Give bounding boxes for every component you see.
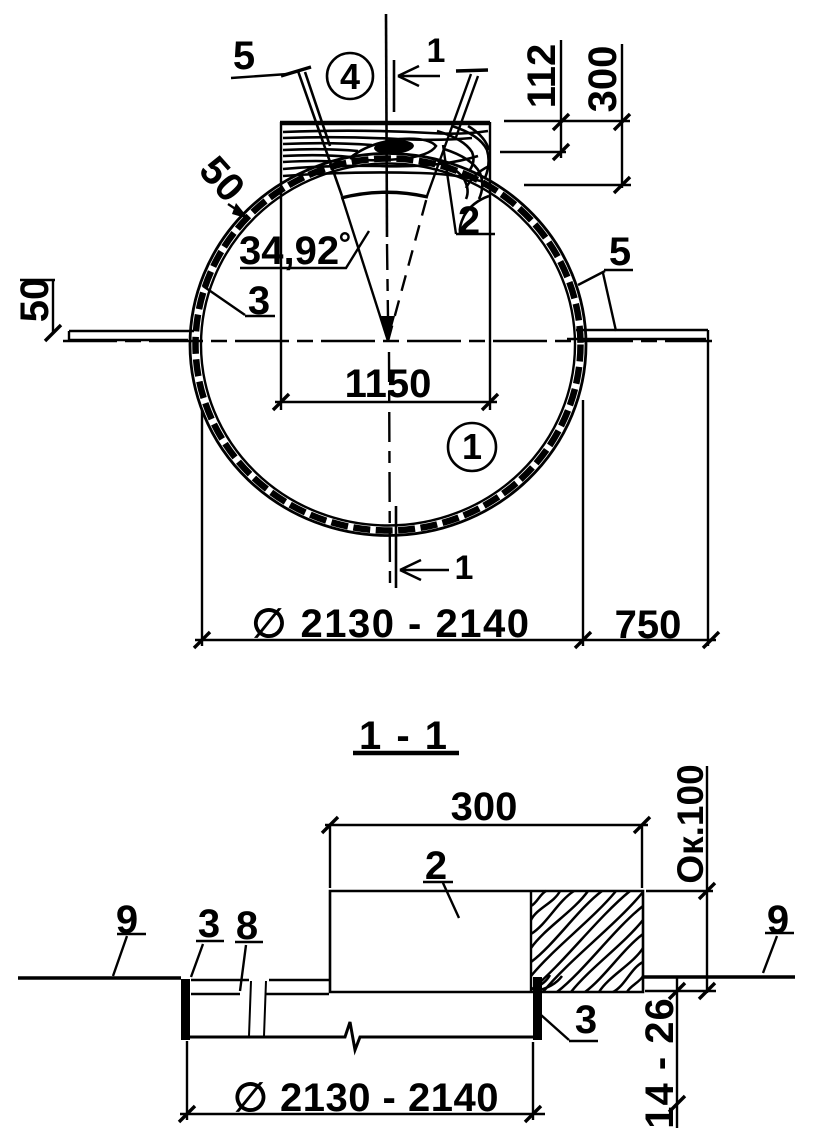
- plank right edge / 1150 extension: [489, 122, 491, 410]
- left ledge (lath element 5): [69, 331, 194, 340]
- tick 300 s left: [322, 817, 338, 833]
- dim 50 left slash: [45, 325, 61, 341]
- svg-text:1150: 1150: [345, 362, 432, 406]
- dim line 300: [621, 44, 623, 188]
- dashed ring (barrel wall hatch, plan view): [196, 159, 581, 531]
- angle V right line (dashed): [388, 197, 427, 341]
- svg-text:1: 1: [427, 32, 446, 70]
- ground line left (element 9): [18, 976, 181, 980]
- svg-text:5: 5: [233, 34, 255, 78]
- svg-text:2: 2: [458, 199, 480, 243]
- svg-text:300: 300: [451, 785, 518, 829]
- left barrel wall (element 3), section: [181, 979, 190, 1040]
- svg-text:1: 1: [462, 426, 482, 467]
- plank left edge / 1150 extension: [280, 122, 282, 410]
- wood grain on plank (plan): [283, 126, 489, 233]
- tick 112 bottom: [553, 144, 569, 160]
- section title underline: [353, 751, 459, 756]
- angle arc between nail tips: [341, 192, 428, 198]
- extension plank top edge right: [504, 120, 630, 122]
- leader for label 2 plan + underline: [443, 145, 495, 234]
- left nail shaft: [298, 71, 342, 196]
- dia dim bottom: extensions: [187, 1041, 533, 1120]
- right ledge (lath element 5): [567, 330, 708, 339]
- svg-text:112: 112: [520, 44, 564, 109]
- dia dim bottom line: [180, 1113, 545, 1115]
- cover board (element 2) outline, section: [330, 891, 643, 992]
- right nail (element 5) head: [456, 70, 488, 71]
- plank (cover board element 2/4) top edge: [280, 121, 490, 126]
- tick dia right: [703, 632, 719, 648]
- svg-text:2: 2: [425, 844, 447, 888]
- leader for label 5 top-left: [231, 74, 288, 78]
- vertex arrowhead at circle center: [381, 316, 395, 342]
- Ок.100 extensions: [645, 891, 716, 991]
- tick 1150 left: [273, 394, 289, 410]
- section mark bottom arrow: [400, 560, 449, 580]
- leader/underline for 34,92: [240, 231, 369, 268]
- dim 50 left top tick: [20, 279, 55, 281]
- dim 14-26: line: [676, 977, 678, 1128]
- tick 300 top: [614, 114, 630, 130]
- dim line 112: [560, 40, 562, 158]
- extension circle right to dia dim: [582, 400, 584, 646]
- leader for label 5 right (to rim): [578, 270, 633, 285]
- Ок.100 ticks: [699, 883, 715, 999]
- tick 300 bottom: [614, 177, 630, 193]
- leader 3 left section: [191, 941, 224, 977]
- tick dia left: [194, 632, 210, 648]
- right nail shaft: [427, 74, 478, 196]
- svg-text:3: 3: [248, 279, 270, 323]
- vertical centerline upper (section trace): [386, 14, 387, 237]
- ticks 14-26: [669, 983, 685, 1112]
- svg-text:34,92˚: 34,92˚: [239, 229, 352, 273]
- extension circle top level (112): [500, 151, 566, 153]
- lid plate top line: [191, 979, 329, 981]
- svg-text:3: 3: [575, 998, 597, 1042]
- outer circle (barrel rim, plan view): [190, 154, 586, 536]
- svg-text:50: 50: [13, 278, 57, 323]
- svg-text:300: 300: [581, 46, 625, 113]
- leader for label 3 plan + underline: [203, 286, 275, 316]
- extension circle left to dia dim: [201, 410, 203, 646]
- dimension 1150 line: [275, 401, 497, 403]
- lid plate bottom line: [191, 993, 329, 995]
- svg-text:1: 1: [455, 549, 474, 587]
- svg-text:3: 3: [198, 902, 220, 946]
- circled label 4: [327, 53, 373, 99]
- section mark top: cut line tick: [393, 60, 396, 112]
- svg-text:9: 9: [116, 898, 138, 942]
- leader label 2 section: [423, 882, 459, 918]
- extension ledge right to dia dim (750): [707, 339, 709, 646]
- circled label 1: [448, 423, 496, 471]
- svg-text:8: 8: [236, 904, 258, 948]
- section mark top arrow: [398, 66, 440, 86]
- tick 1150 right: [482, 394, 498, 410]
- ticks dia bottom: [179, 1106, 541, 1122]
- leader 9 left: [113, 934, 146, 976]
- ground line right (element 9): [643, 975, 795, 979]
- board joint (element 8) double line: [249, 981, 266, 1036]
- leader 50 diagonal top-left with arrow: [228, 204, 243, 214]
- svg-text:∅ 2130 - 2140: ∅ 2130 - 2140: [233, 1076, 499, 1120]
- extension plank lower edge level (300): [524, 184, 631, 186]
- leader 8 section: [235, 942, 263, 991]
- svg-text:Ок.100: Ок.100: [670, 764, 711, 883]
- dim 300 section: extensions: [330, 825, 642, 888]
- svg-text:∅ 2130 - 2140: ∅ 2130 - 2140: [252, 602, 531, 646]
- vertical centerline mid dashes: [387, 244, 388, 318]
- svg-text:5: 5: [609, 230, 631, 274]
- tick 112 top: [553, 114, 569, 130]
- svg-text:14 - 26: 14 - 26: [638, 997, 682, 1129]
- section mark bottom: cut line tick: [395, 506, 398, 588]
- tick 300 s right: [634, 817, 650, 833]
- leader 9 right: [763, 933, 794, 973]
- board joint line between plain and hatched part: [530, 891, 532, 992]
- svg-text:1 - 1: 1 - 1: [359, 714, 449, 758]
- inner circle (barrel inner wall, plan view): [201, 164, 575, 526]
- right barrel wall (element 3), section: [533, 977, 542, 1040]
- svg-text:9: 9: [767, 898, 789, 942]
- dim 50 left: vertical line: [52, 279, 54, 334]
- leader 3 right section: [541, 1015, 598, 1041]
- horizontal centerline: [63, 340, 712, 343]
- dim 300 section line: [325, 824, 648, 826]
- vertical centerline below center: [389, 352, 390, 585]
- barrel bottom broken line: [181, 1022, 534, 1050]
- tick dia mid: [575, 632, 591, 648]
- leader for label 5 right (to ledge): [603, 273, 616, 331]
- svg-text:4: 4: [340, 56, 360, 97]
- Ок.100 dim: line: [706, 766, 708, 993]
- wood grain hatched block (section) done in section group: [18, 753, 795, 1128]
- angle V left line: [342, 197, 388, 341]
- left nail (element 5) head: [281, 67, 311, 76]
- svg-text:750: 750: [615, 603, 682, 647]
- dimension line dia 2130-2140 + 750: [195, 639, 716, 641]
- wood end-grain hatch (section, right block): [531, 891, 643, 992]
